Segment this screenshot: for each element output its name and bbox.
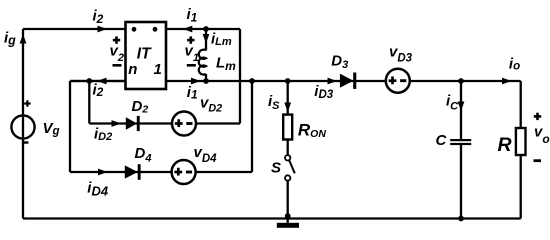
node D4 return on bus — [249, 78, 255, 84]
wire D4 branch horizontal — [70, 171, 252, 173]
node C bottom on rail — [458, 216, 464, 222]
arrow i2 top right — [98, 26, 108, 33]
wire D4 feed vertical — [69, 81, 71, 172]
node i2/D2 junction — [86, 78, 92, 84]
node Lm top (v1 net) — [203, 26, 209, 32]
node C top on bus — [458, 78, 464, 84]
arrow ig up — [20, 34, 27, 44]
diode D3 — [340, 74, 354, 88]
arrow iC down — [458, 102, 465, 112]
arrow i1 top left — [183, 26, 192, 33]
arrow io right — [502, 78, 512, 85]
inductor Lm coil — [199, 50, 206, 75]
arrow i1 bottom right — [191, 78, 201, 85]
svg-text:S: S — [271, 159, 281, 176]
label v1 polarity plus — [187, 39, 194, 42]
node switch branch on bus — [285, 78, 291, 84]
wire left input rail (Vg column) — [22, 29, 24, 219]
node Lm bottom (bus) — [203, 78, 209, 84]
node switch branch on bottom rail — [285, 213, 291, 219]
svg-text:n: n — [128, 61, 137, 78]
wire D4 return vertical up to bus — [251, 81, 253, 172]
dependent source vD2 — [172, 112, 196, 136]
wire D2 return vertical (v1 node down to vD2) — [239, 29, 241, 124]
switch S — [285, 155, 290, 160]
wire top secondary lead (ig/i2 to IT and on to D2 return) — [23, 28, 240, 30]
arrow i2 bottom left — [97, 78, 107, 85]
capacitor C plates — [450, 139, 471, 141]
wire Lm stubs — [205, 29, 207, 81]
voltage source Vg — [11, 115, 34, 138]
label vo polarity plus — [534, 115, 541, 118]
label v1 polarity minus — [187, 64, 196, 67]
arrow iLm down — [203, 34, 210, 44]
wire load branch vertical (R) — [520, 81, 522, 219]
resistor R body — [516, 128, 526, 155]
wire main bus y=81 (i1 / iD3 / io net) — [70, 80, 521, 82]
dependent source vD3 — [386, 69, 410, 93]
svg-text:i2: i2 — [93, 82, 104, 100]
svg-text:IT: IT — [137, 46, 152, 63]
arrow iD3 right — [328, 78, 338, 85]
wire switch branch (iS / RON / S) — [287, 81, 289, 223]
arrow iD2 right — [112, 120, 122, 127]
wire bottom return rail — [23, 217, 521, 219]
wire D2 branch horizontal — [89, 122, 240, 124]
transformer U1 IT box — [126, 22, 167, 89]
svg-text:R: R — [498, 134, 512, 156]
svg-text:1: 1 — [154, 61, 162, 78]
dependent source vD4 — [172, 160, 196, 184]
svg-text:i1: i1 — [187, 84, 198, 102]
diode D2 — [126, 117, 137, 130]
transformer polarity dot left — [132, 27, 137, 32]
transformer polarity dot right — [153, 27, 158, 32]
arrow iD4 right — [98, 169, 108, 176]
arrow iS down — [284, 103, 291, 113]
resistor RON body — [283, 115, 292, 140]
diode D4 — [125, 165, 138, 178]
ground — [277, 223, 299, 228]
label v2 polarity plus — [113, 39, 120, 42]
label vo polarity minus — [534, 159, 542, 162]
wire D2 feed vertical from node B — [88, 81, 90, 124]
wire bottom secondary lead i2 — [70, 80, 126, 82]
label v2 polarity minus — [113, 64, 122, 67]
wire capacitor branch — [460, 81, 462, 218]
svg-text:C: C — [436, 132, 448, 149]
